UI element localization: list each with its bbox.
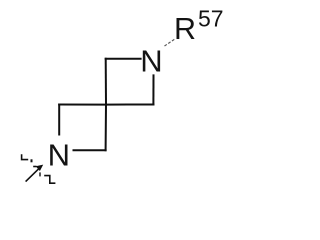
squiggle dash — [33, 166, 36, 168]
squiggle lower step — [44, 176, 55, 184]
wire: lower ring left bond (C3-N2) — [58, 105, 60, 135]
wire: lower ring bottom bond (C1-N2) — [74, 149, 106, 151]
svg-text:57: 57 — [198, 6, 224, 32]
wire: lower ring right bond (spiro C4-C1) — [105, 105, 107, 151]
tick below arrowhead — [39, 172, 41, 176]
wire: upper ring left bond (C7-spiro C4) — [105, 59, 107, 105]
bond N6-R57 (faint) — [165, 39, 176, 46]
arrowhead — [36, 165, 44, 171]
wire: upper ring right bond (N6-C5) — [152, 75, 154, 104]
svg-text:N: N — [140, 44, 162, 79]
svg-text:R: R — [174, 12, 196, 46]
wire: upper ring bottom bond (C5-spiro C4) — [106, 104, 153, 106]
squiggle dot — [31, 159, 33, 162]
wire: upper ring top bond (C7-N6) — [106, 58, 141, 60]
wavy attachment bond at N2 — [22, 154, 56, 183]
svg-text:N: N — [48, 138, 70, 173]
attachment bond diagonal — [26, 168, 40, 181]
squiggle upper step — [22, 154, 29, 159]
wire: lower ring top bond (spiro C4-C3) — [59, 104, 106, 106]
